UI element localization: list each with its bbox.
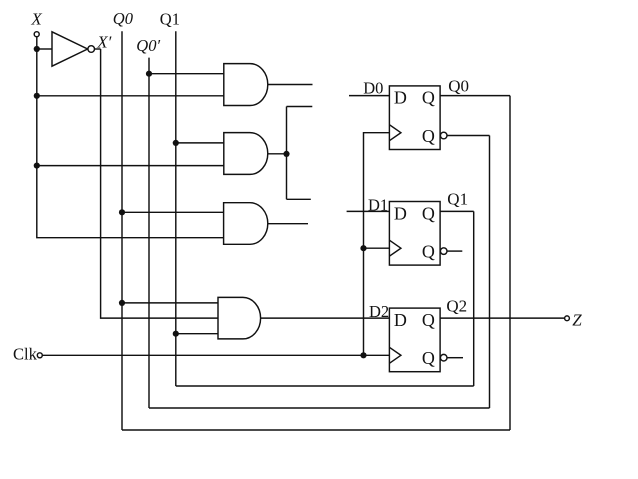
wire Q1 feedback right vertical: [473, 211, 475, 386]
wire Q1 vertical (left): [175, 31, 177, 386]
input terminal X: [34, 32, 39, 37]
svg-text:Clk: Clk: [13, 345, 38, 364]
svg-text:Z: Z: [572, 311, 582, 330]
node X to AND1: [34, 93, 40, 99]
wire X to AND2 bottom input: [37, 165, 224, 167]
wire Q0 to AND3 top input: [122, 211, 224, 213]
wire FF1 Q output to feedback: [440, 95, 510, 97]
wire clock branch to FF2 clock: [364, 247, 390, 249]
wire Q2 output to Z: [440, 317, 564, 319]
and-gate AND4: [218, 297, 261, 339]
svg-text:Q0: Q0: [448, 76, 469, 95]
wire AND2 output: [268, 153, 287, 155]
wire inverter output to X' vertical: [95, 48, 101, 50]
node Q0 to AND3: [119, 209, 125, 215]
svg-text:Q1: Q1: [160, 9, 180, 28]
svg-text:D: D: [394, 203, 407, 223]
svg-text:Q: Q: [422, 126, 435, 146]
input terminal Clk: [37, 353, 42, 358]
and-gate AND3: [224, 203, 268, 245]
wire FF1 Q' output to feedback: [447, 135, 490, 137]
svg-text:D1: D1: [368, 196, 388, 215]
wire Q0' to AND1 top input: [149, 73, 224, 75]
svg-text:Q2: Q2: [446, 296, 467, 315]
wire X vertical down to AND3 bottom input: [37, 37, 224, 238]
clock triangle FF2: [389, 240, 401, 256]
node X to AND2: [34, 163, 40, 169]
node bracket junction: [283, 151, 289, 157]
wire Q0' feedback right vertical: [489, 136, 491, 409]
svg-text:Q1: Q1: [447, 190, 468, 209]
wire FF3 Q' stub: [447, 357, 463, 359]
wire bracket bottom stub: [287, 198, 311, 200]
wire Q1 to AND4 bottom input: [176, 333, 218, 335]
wire D0 stub: [349, 95, 389, 97]
node clock branch to FF2: [360, 245, 366, 251]
wire Q1 to AND2 top input: [176, 142, 224, 144]
flip-flop FF1: [389, 86, 440, 150]
wire D1 stub: [347, 210, 390, 212]
wire Q0 vertical (left): [121, 31, 123, 430]
wire clock vertical up to FF1 clock: [364, 133, 390, 356]
svg-text:Q: Q: [422, 348, 435, 368]
inverter output bubble: [88, 46, 95, 53]
wire Q0' feedback bottom: [149, 407, 490, 409]
svg-text:Q: Q: [422, 203, 435, 223]
svg-text:Q: Q: [422, 88, 435, 108]
wire Q1 feedback bottom: [176, 385, 474, 387]
node Q1 to AND4: [173, 331, 179, 337]
svg-text:D2: D2: [369, 302, 389, 321]
node Q0' to AND1: [146, 71, 152, 77]
output terminal Z: [565, 316, 570, 321]
wire X' vertical down to AND4 middle input: [101, 49, 218, 318]
node X to inverter: [34, 46, 40, 52]
wire X to AND1 bottom input: [37, 95, 224, 97]
wire Q0 feedback right vertical: [509, 96, 511, 430]
clock triangle FF3: [389, 347, 401, 363]
wire bracket top stub: [287, 106, 313, 108]
node Clk to clock vertical: [360, 352, 366, 358]
clock triangle FF1: [389, 125, 401, 141]
svg-text:D: D: [394, 88, 407, 108]
wire FF2 Q output to feedback: [440, 210, 474, 212]
wire Q0 feedback bottom: [122, 429, 510, 431]
wire X to inverter input: [37, 48, 52, 50]
wire Q0' vertical (left): [148, 58, 150, 408]
and-gate AND1: [224, 64, 268, 106]
flip-flop FF3: [389, 308, 440, 372]
wire Clk horizontal to FF3 clock: [42, 354, 389, 356]
wire FF2 Q' stub: [447, 250, 462, 252]
bubble FF1 Q': [440, 132, 447, 139]
bubble FF2 Q': [440, 248, 447, 255]
and-gate AND2: [224, 133, 268, 175]
wire AND1 output: [268, 84, 313, 86]
svg-text:D0: D0: [363, 79, 383, 98]
wire AND4 output to D2 input: [260, 317, 389, 319]
svg-text:Q: Q: [422, 242, 435, 262]
node Q0 to AND4: [119, 300, 125, 306]
inverter U1: [52, 32, 88, 66]
wire AND3 output: [268, 223, 308, 225]
svg-text:Q: Q: [422, 310, 435, 330]
svg-text:D: D: [394, 310, 407, 330]
svg-text:Q0′: Q0′: [136, 36, 160, 55]
node Q1 to AND2: [173, 140, 179, 146]
wire bracket vertical: [286, 107, 288, 200]
svg-text:Q0: Q0: [113, 9, 134, 28]
wire Q0 to AND4 top input: [122, 302, 218, 304]
bubble FF3 Q': [440, 354, 447, 361]
svg-text:X: X: [30, 10, 42, 29]
flip-flop FF2: [389, 202, 440, 266]
